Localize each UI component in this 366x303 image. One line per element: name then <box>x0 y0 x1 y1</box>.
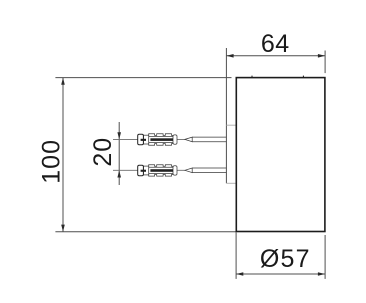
screw 1: screw tip cone <box>185 137 192 142</box>
screw 1: anchor bottom ribbed profile <box>149 143 173 145</box>
dimension 20: upper arrowhead (outside, pointing down) <box>117 132 121 139</box>
screw 1: collar slot dash <box>141 139 146 141</box>
body top edge tick 2 <box>302 76 304 78</box>
dimension D57: left arrowhead <box>236 272 243 276</box>
body (cylinder side view) <box>236 78 325 232</box>
svg-text:Ø57: Ø57 <box>260 245 311 273</box>
screw 2: fixing screw with wall anchor <box>138 165 227 176</box>
svg-text:100: 100 <box>38 139 66 184</box>
body top edge tick 1 <box>251 76 253 78</box>
screw 1: anchor top ribbed profile <box>149 134 173 136</box>
svg-text:64: 64 <box>261 30 290 58</box>
dimension 64: right arrowhead <box>318 54 325 58</box>
dimension 64: dimension line <box>226 55 325 57</box>
dimension 20: lower arrowhead (outside, pointing up) <box>117 170 121 177</box>
mounting plate bottom edge <box>226 182 236 184</box>
dimension 100: dimension line <box>62 78 64 232</box>
screw 1: screw shaft <box>192 137 226 142</box>
dimension 64: right extension line <box>324 51 326 74</box>
screw 1: anchor tip end cap <box>173 135 177 144</box>
screw 1: anchor neck <box>143 135 148 144</box>
dimension D57: left extension line <box>235 233 237 279</box>
screw 1: anchor expansion slot <box>150 138 173 141</box>
dimension D57: dimension line <box>236 273 325 275</box>
mounting plate top edge <box>226 124 236 126</box>
dimension 64: left extension line / mounting plate left edge <box>225 48 227 183</box>
dimension D57: right arrowhead <box>318 272 325 276</box>
svg-text:20: 20 <box>89 137 117 167</box>
screw 1: anchor inner cylinder bottom line <box>149 142 173 144</box>
dimension 64: left arrowhead <box>226 54 233 58</box>
screw 1 centerline / extension <box>113 138 185 140</box>
dimension 20: dimension line <box>118 122 120 185</box>
dimension 100: top arrowhead <box>61 78 65 85</box>
screw 1: fixing screw with wall anchor <box>138 134 227 145</box>
dimension D57: right extension line <box>324 235 326 279</box>
screw 2 centerline / extension <box>113 169 185 171</box>
dimension 100: top extension line <box>55 77 231 79</box>
screw 1: anchor collar <box>138 134 144 145</box>
dimension 100: bottom arrowhead <box>61 225 65 232</box>
screw 1: anchor inner cylinder top line <box>149 135 173 137</box>
dimension 100: bottom extension line <box>55 231 236 233</box>
screw 1: anchor body white underlay <box>143 134 176 145</box>
